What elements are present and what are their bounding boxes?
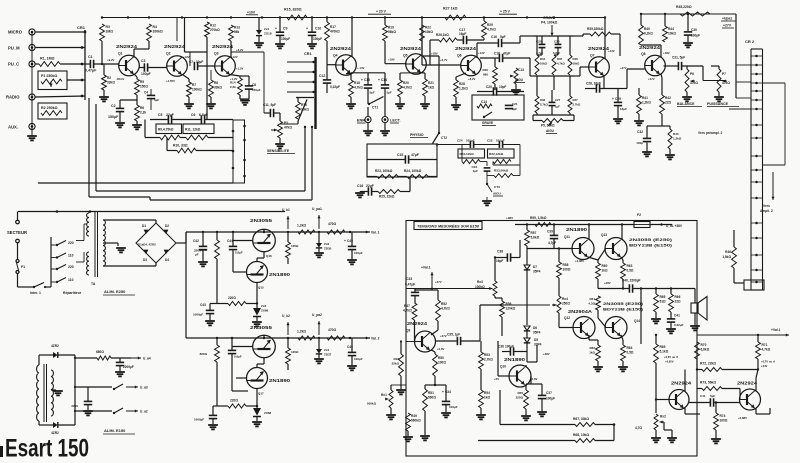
- svg-text:2N3055: 2N3055: [250, 218, 273, 223]
- svg-text:R15, 820Ω: R15, 820Ω: [284, 8, 302, 12]
- svg-text:C12: C12: [319, 74, 325, 78]
- svg-text:Zx2: Zx2: [324, 242, 330, 246]
- svg-text:R60: R60: [602, 264, 608, 268]
- svg-text:2N2924: 2N2924: [212, 44, 234, 49]
- svg-text:56kΩ: 56kΩ: [388, 30, 396, 34]
- svg-text:22µF: 22µF: [166, 113, 174, 117]
- svg-text:16µF: 16µF: [620, 107, 627, 111]
- svg-text:Rx2: Rx2: [660, 415, 666, 419]
- svg-text:470Ω: 470Ω: [328, 328, 337, 332]
- svg-text:2N1890: 2N1890: [566, 227, 588, 232]
- svg-text:47µF: 47µF: [503, 52, 510, 56]
- svg-text:R74: R74: [720, 414, 726, 418]
- svg-text:U_k1: U_k1: [282, 208, 290, 212]
- svg-text:R35: R35: [557, 57, 563, 61]
- svg-text:1,2kΩ: 1,2kΩ: [642, 101, 651, 105]
- svg-text:4,7kΩ: 4,7kΩ: [354, 86, 363, 90]
- svg-text:R64: R64: [627, 346, 633, 350]
- svg-text:Q5: Q5: [403, 54, 408, 58]
- svg-text:5µF: 5µF: [387, 91, 392, 95]
- svg-text:220: 220: [68, 265, 74, 269]
- svg-text:Q17: Q17: [258, 392, 264, 396]
- svg-text:+12V: +12V: [183, 55, 190, 59]
- svg-text:2N3055: 2N3055: [250, 325, 273, 330]
- svg-text:+19V: +19V: [247, 11, 256, 15]
- svg-text:1000µF: 1000µF: [193, 313, 203, 317]
- svg-text:2N2924: 2N2924: [671, 381, 692, 386]
- svg-text:R69: R69: [660, 345, 666, 349]
- svg-text:+Upa1: +Upa1: [722, 17, 732, 21]
- svg-text:C33: C33: [406, 277, 412, 281]
- svg-text:CR1: CR1: [304, 52, 312, 56]
- svg-text:10kΩ: 10kΩ: [573, 62, 581, 66]
- svg-text:4,7kΩ: 4,7kΩ: [557, 62, 565, 66]
- svg-text:R1, 1MΩ: R1, 1MΩ: [40, 57, 55, 61]
- svg-text:R46: R46: [725, 250, 731, 254]
- svg-text:120Ω: 120Ω: [291, 350, 299, 354]
- svg-text:Zx3: Zx3: [261, 304, 267, 308]
- svg-text:SECTEUR: SECTEUR: [7, 230, 27, 235]
- svg-text:220Ω: 220Ω: [516, 396, 524, 400]
- svg-text:150Ω: 150Ω: [140, 85, 148, 89]
- svg-text:CT1: CT1: [372, 106, 378, 110]
- svg-text:C9: C9: [283, 27, 287, 31]
- svg-text:BDY23B (E150): BDY23B (E150): [629, 243, 673, 248]
- svg-text:R2: R2: [107, 76, 111, 80]
- svg-text:C4: C4: [144, 91, 148, 95]
- svg-text:R57: R57: [531, 231, 537, 235]
- svg-text:+27V: +27V: [620, 66, 627, 70]
- svg-text:Zx1: Zx1: [264, 27, 270, 31]
- svg-text:+ 20 V: + 20 V: [376, 10, 387, 14]
- svg-text:22kΩ: 22kΩ: [392, 362, 400, 366]
- svg-text:Esart 150: Esart 150: [5, 435, 89, 463]
- svg-text:C24: C24: [457, 139, 463, 143]
- svg-text:R43: R43: [673, 132, 679, 136]
- svg-text:100Ω: 100Ω: [438, 361, 446, 365]
- svg-text:-30mV: -30mV: [116, 77, 125, 81]
- svg-text:R73, 56kΩ: R73, 56kΩ: [700, 381, 716, 385]
- svg-text:D1: D1: [142, 224, 146, 228]
- svg-text:R10, 33Ω: R10, 33Ω: [173, 144, 188, 148]
- svg-text:4ZR2: 4ZR2: [51, 344, 59, 348]
- svg-text:P6: P6: [690, 72, 694, 76]
- svg-text:Q12: Q12: [564, 316, 570, 320]
- svg-text:ZX68: ZX68: [261, 309, 269, 313]
- svg-text:R52: R52: [441, 302, 447, 306]
- svg-text:35P4: 35P4: [533, 331, 541, 335]
- svg-text:C20: C20: [486, 85, 492, 89]
- svg-text:R4: R4: [153, 25, 157, 29]
- svg-text:2N2924: 2N2924: [407, 321, 428, 326]
- svg-text:220: 220: [68, 241, 74, 245]
- svg-text:+: +: [378, 78, 380, 82]
- svg-text:4,7kΩ: 4,7kΩ: [403, 86, 412, 90]
- svg-text:C1: C1: [88, 55, 93, 59]
- svg-text:0,47µF: 0,47µF: [85, 69, 97, 73]
- svg-text:+0,7V ou rf: +0,7V ou rf: [761, 360, 775, 364]
- svg-text:C21: C21: [512, 102, 518, 106]
- svg-text:PUISSANCE: PUISSANCE: [707, 102, 729, 106]
- svg-text:+38V: +38V: [506, 216, 513, 220]
- svg-text:110: 110: [68, 278, 74, 282]
- svg-text:C31, 5µF: C31, 5µF: [672, 56, 685, 60]
- svg-text:C35, 1µF: C35, 1µF: [447, 333, 460, 337]
- svg-text:470kΩ: 470kΩ: [330, 30, 340, 34]
- svg-text:110: 110: [68, 254, 74, 258]
- svg-text:R65: R65: [660, 295, 666, 299]
- svg-text:22Ω: 22Ω: [675, 300, 682, 304]
- svg-text:1,2kΩ: 1,2kΩ: [673, 137, 682, 141]
- svg-text:D5: D5: [534, 338, 538, 342]
- svg-text:AIGU: AIGU: [493, 192, 502, 196]
- svg-text:R19: R19: [388, 26, 394, 30]
- svg-text:100kΩ: 100kΩ: [153, 30, 164, 34]
- svg-text:100µF: 100µF: [354, 357, 363, 361]
- svg-text:2N2924: 2N2924: [400, 46, 422, 51]
- svg-text:C39: C39: [547, 230, 553, 234]
- svg-text:D1àD4, 4ZR2: D1àD4, 4ZR2: [138, 243, 156, 247]
- svg-text:R22: R22: [425, 26, 431, 30]
- svg-text:C41: C41: [674, 314, 680, 318]
- svg-text:Vers: Vers: [763, 204, 770, 208]
- svg-text:4,3Ω: 4,3Ω: [588, 302, 595, 306]
- svg-text:0,5Ω: 0,5Ω: [627, 269, 634, 273]
- svg-text:R53: R53: [484, 353, 490, 357]
- svg-text:ZD37: ZD37: [324, 353, 332, 357]
- svg-text:2N2924: 2N2924: [164, 44, 186, 49]
- svg-text:R62: R62: [589, 346, 595, 350]
- svg-text:R3: R3: [106, 25, 110, 29]
- svg-text:C36: C36: [498, 345, 504, 349]
- svg-text:+0,6V ou rf: +0,6V ou rf: [664, 355, 678, 359]
- svg-text:R9,4.75kΩ: R9,4.75kΩ: [158, 128, 174, 132]
- svg-text:R17: R17: [330, 25, 336, 29]
- svg-text:100µF: 100µF: [313, 37, 322, 41]
- svg-text:R25, 22kΩ: R25, 22kΩ: [379, 195, 395, 199]
- svg-text:CR1: CR1: [77, 25, 86, 30]
- svg-text:P7: P7: [722, 72, 726, 76]
- svg-text:Q3: Q3: [214, 52, 219, 56]
- svg-text:Q11: Q11: [564, 235, 570, 239]
- svg-text:Répartiteur: Répartiteur: [63, 291, 82, 295]
- svg-text:270kΩ: 270kΩ: [210, 28, 220, 32]
- svg-text:R50: R50: [438, 356, 444, 360]
- svg-text:0,22µF: 0,22µF: [330, 85, 340, 89]
- svg-text:U_pa1: U_pa1: [312, 207, 322, 211]
- svg-text:250Ω: 250Ω: [562, 302, 570, 306]
- svg-text:R55: R55: [517, 391, 523, 395]
- svg-text:CT3: CT3: [494, 185, 500, 189]
- svg-text:D2: D2: [165, 224, 169, 228]
- svg-text:D6: D6: [533, 326, 537, 330]
- svg-text:R54: R54: [484, 391, 490, 395]
- svg-text:R27 1kΩ: R27 1kΩ: [443, 7, 458, 11]
- svg-text:100µF: 100µF: [354, 251, 363, 255]
- svg-text:2N2924: 2N2924: [588, 46, 610, 51]
- svg-text:2N2924: 2N2924: [455, 46, 477, 51]
- svg-text:C37: C37: [546, 391, 552, 395]
- svg-text:U_a3: U_a3: [140, 386, 148, 390]
- svg-text:R39,330kΩ: R39,330kΩ: [587, 27, 604, 31]
- svg-text:R61: R61: [589, 297, 595, 301]
- svg-text:22Ω: 22Ω: [665, 101, 672, 105]
- svg-text:+ 25 V: + 25 V: [500, 10, 511, 14]
- svg-text:4,7Ω: 4,7Ω: [635, 426, 642, 430]
- svg-text:47kΩ: 47kΩ: [690, 81, 698, 85]
- svg-text:C28, 16µF: C28, 16µF: [586, 82, 601, 86]
- svg-text:R13: R13: [234, 26, 240, 30]
- svg-text:R8: R8: [214, 81, 218, 85]
- svg-text:R11, 12kΩ: R11, 12kΩ: [185, 128, 201, 132]
- svg-text:AUX.: AUX.: [8, 125, 18, 130]
- svg-text:C11, 5µF: C11, 5µF: [263, 103, 276, 107]
- svg-text:5,6µF: 5,6µF: [234, 355, 242, 359]
- svg-text:R36: R36: [540, 98, 546, 102]
- svg-text:2200: 2200: [71, 404, 78, 408]
- svg-text:D3: D3: [143, 258, 147, 262]
- svg-text:Q15: Q15: [258, 286, 264, 290]
- svg-text:U_a4: U_a4: [143, 357, 151, 361]
- svg-text:2N3055 (E250): 2N3055 (E250): [603, 302, 644, 306]
- svg-text:R26,1kΩ: R26,1kΩ: [436, 33, 449, 37]
- svg-text:2,7kΩ: 2,7kΩ: [484, 358, 493, 362]
- svg-text:5µF: 5µF: [370, 91, 375, 95]
- svg-text:680: 680: [483, 73, 488, 77]
- svg-text:R33,56kΩ: R33,56kΩ: [494, 169, 509, 173]
- svg-text:TENSIONS MESURÉES SUR E150: TENSIONS MESURÉES SUR E150: [417, 224, 479, 229]
- svg-text:2,2k: 2,2k: [230, 85, 236, 89]
- svg-text:µF: µF: [195, 253, 199, 257]
- svg-text:C41: C41: [700, 394, 706, 398]
- svg-text:+: +: [306, 27, 308, 31]
- svg-text:SENSIBILITE: SENSIBILITE: [267, 149, 290, 153]
- svg-text:+12V: +12V: [231, 55, 238, 59]
- svg-text:150µF: 150µF: [108, 115, 119, 119]
- svg-text:R38: R38: [573, 57, 579, 61]
- svg-text:+: +: [275, 27, 277, 31]
- svg-text:+27V: +27V: [440, 334, 447, 338]
- svg-text:2N1890: 2N1890: [269, 272, 291, 277]
- svg-text:+24V: +24V: [761, 364, 768, 368]
- svg-text:+ 14V: + 14V: [357, 66, 365, 70]
- svg-text:C10: C10: [315, 27, 321, 31]
- svg-text:R47: R47: [404, 304, 410, 308]
- svg-text:Q16: Q16: [266, 254, 272, 258]
- svg-text:R40: R40: [644, 27, 650, 31]
- svg-text:100µF: 100µF: [546, 397, 555, 401]
- svg-text:R67, 33kΩ: R67, 33kΩ: [573, 417, 589, 421]
- svg-text:5µF: 5µF: [710, 394, 715, 398]
- svg-text:Q10: Q10: [500, 365, 506, 369]
- svg-text:Rx3: Rx3: [477, 280, 483, 284]
- svg-text:R41: R41: [642, 96, 648, 100]
- svg-text:C15: C15: [397, 153, 403, 157]
- svg-text:6,2kΩ: 6,2kΩ: [644, 32, 653, 36]
- svg-text:R21: R21: [428, 81, 434, 85]
- svg-text:+18V: +18V: [663, 51, 670, 55]
- svg-text:+0,65V: +0,65V: [665, 360, 674, 364]
- svg-text:2N2904A: 2N2904A: [568, 309, 592, 314]
- svg-text:16µF: 16µF: [459, 32, 466, 36]
- svg-text:+: +: [361, 78, 363, 82]
- svg-text:1,5kΩ: 1,5kΩ: [722, 255, 731, 259]
- svg-text:R66: R66: [675, 295, 681, 299]
- svg-text:P5, 50kΩ: P5, 50kΩ: [541, 124, 555, 128]
- svg-text:Q14: Q14: [634, 319, 640, 323]
- svg-text:ALIM. E250: ALIM. E250: [104, 289, 126, 294]
- svg-text:CR 2: CR 2: [745, 39, 755, 44]
- svg-text:+18V: +18V: [431, 52, 438, 56]
- svg-text:100µ: 100µ: [636, 141, 643, 145]
- svg-text:+3,2V: +3,2V: [236, 48, 244, 52]
- svg-text:C15: C15: [364, 78, 370, 82]
- svg-text:510µF: 510µF: [496, 139, 505, 143]
- svg-text:Q1: Q1: [118, 52, 123, 56]
- svg-text:+28V: +28V: [543, 352, 550, 356]
- svg-text:MICRO: MICRO: [8, 30, 23, 35]
- svg-text:BDY23B (E150): BDY23B (E150): [603, 308, 644, 312]
- svg-text:Q6: Q6: [457, 54, 462, 58]
- svg-text:5µF: 5µF: [154, 98, 159, 102]
- svg-text:820Ω: 820Ω: [200, 248, 208, 252]
- svg-text:R48: R48: [393, 357, 399, 361]
- svg-text:R72, 22kΩ: R72, 22kΩ: [700, 362, 716, 366]
- svg-text:C42: C42: [193, 239, 199, 243]
- svg-text:Q2: Q2: [166, 52, 171, 56]
- svg-text:1kΩ: 1kΩ: [428, 86, 435, 90]
- svg-text:10µF: 10µF: [499, 85, 506, 89]
- svg-text:5,6kΩ: 5,6kΩ: [531, 236, 540, 240]
- svg-text:C5: C5: [158, 113, 162, 117]
- svg-text:R30: R30: [482, 68, 488, 72]
- svg-text:Rx4: Rx4: [562, 297, 568, 301]
- svg-text:1,2kΩ: 1,2kΩ: [297, 330, 306, 334]
- svg-text:AIGU: AIGU: [515, 78, 524, 82]
- svg-text:+27V: +27V: [723, 24, 732, 28]
- svg-text:2N1890: 2N1890: [269, 378, 291, 383]
- svg-text:2200µF: 2200µF: [123, 365, 134, 369]
- svg-text:ZG18: ZG18: [264, 32, 272, 36]
- svg-text:U_k2: U_k2: [282, 314, 290, 318]
- svg-text:1kΩ: 1kΩ: [602, 269, 609, 273]
- svg-text:10kΩ: 10kΩ: [540, 62, 548, 66]
- svg-text:100Ω: 100Ω: [720, 419, 728, 423]
- svg-text:C6: C6: [191, 113, 195, 117]
- svg-text:ALIM. E150: ALIM. E150: [104, 428, 126, 433]
- svg-text:R18: R18: [354, 81, 360, 85]
- svg-text:560Ω: 560Ω: [428, 396, 436, 400]
- svg-text:47µF: 47µF: [411, 153, 419, 157]
- svg-text:4,7kΩ: 4,7kΩ: [487, 28, 496, 32]
- svg-text:Rx1: Rx1: [381, 393, 387, 397]
- svg-text:R12: R12: [210, 24, 216, 28]
- svg-text:+Val.1: +Val.1: [771, 328, 781, 332]
- svg-text:AIGU: AIGU: [546, 129, 555, 133]
- svg-text:+3,7V: +3,7V: [440, 58, 448, 62]
- svg-text:560kΩ: 560kΩ: [411, 419, 421, 423]
- svg-text:0,47µF: 0,47µF: [405, 283, 415, 287]
- svg-text:P1 250kΩ: P1 250kΩ: [41, 74, 57, 78]
- svg-text:C16: C16: [491, 35, 497, 39]
- svg-text:35P4: 35P4: [533, 270, 541, 274]
- svg-text:C27: C27: [555, 98, 561, 102]
- svg-text:C30: C30: [691, 28, 697, 32]
- svg-text:R59, 1,5kΩ: R59, 1,5kΩ: [530, 216, 547, 220]
- svg-text:1kΩ: 1kΩ: [589, 351, 595, 355]
- svg-text:ZX68: ZX68: [264, 411, 272, 415]
- svg-text:22µF: 22µF: [366, 184, 374, 188]
- svg-text:U_pa2: U_pa2: [312, 313, 322, 317]
- svg-text:33kΩ: 33kΩ: [107, 81, 115, 85]
- svg-text:2N2924: 2N2924: [330, 46, 352, 51]
- svg-text:R24, 100kΩ: R24, 100kΩ: [404, 169, 422, 173]
- svg-text:5,1kΩ: 5,1kΩ: [660, 350, 669, 354]
- svg-text:Q13: Q13: [601, 233, 607, 237]
- svg-text:+19V: +19V: [388, 58, 395, 62]
- svg-text:16µF: 16µF: [496, 259, 503, 263]
- svg-text:120kΩ: 120kΩ: [506, 307, 516, 311]
- svg-text:R34: R34: [540, 57, 546, 61]
- svg-text:U_a1 +38V: U_a1 +38V: [666, 224, 683, 228]
- svg-text:R5: R5: [140, 80, 144, 84]
- svg-text:4,7kΩ: 4,7kΩ: [403, 309, 412, 313]
- svg-text:6,8kΩ: 6,8kΩ: [701, 348, 710, 352]
- svg-text:Q9: Q9: [406, 329, 410, 333]
- svg-text:Val. 1: Val. 1: [371, 231, 380, 235]
- svg-text:+: +: [344, 239, 346, 243]
- svg-text:2N1890: 2N1890: [504, 357, 526, 362]
- svg-text:GRAVE: GRAVE: [482, 121, 493, 125]
- svg-text:150µF: 150µF: [252, 88, 261, 92]
- svg-text:2N2924: 2N2924: [639, 45, 661, 50]
- svg-text:4,7kΩ: 4,7kΩ: [762, 348, 771, 352]
- svg-text:1µF: 1µF: [473, 169, 478, 173]
- svg-text:Q8: Q8: [641, 52, 646, 56]
- svg-text:1µF: 1µF: [555, 105, 560, 109]
- svg-text:100µF: 100µF: [505, 345, 514, 349]
- svg-text:R29: R29: [487, 23, 493, 27]
- svg-text:33kΩ: 33kΩ: [214, 86, 222, 90]
- svg-text:C14: C14: [481, 100, 487, 104]
- svg-text:33P4: 33P4: [534, 343, 542, 347]
- svg-text:C40, 2200µF: C40, 2200µF: [622, 279, 641, 283]
- svg-text:56k: 56k: [234, 30, 240, 34]
- svg-text:Ampli. 2: Ampli. 2: [760, 209, 773, 213]
- svg-text:Q4: Q4: [333, 54, 338, 58]
- svg-text:C38: C38: [497, 250, 503, 254]
- svg-text:R71: R71: [762, 343, 768, 347]
- svg-text:Vers préampl. 2: Vers préampl. 2: [698, 131, 723, 135]
- svg-text:1000µF: 1000µF: [194, 418, 204, 422]
- svg-text:C43: C43: [200, 303, 206, 307]
- svg-text:820Ω: 820Ω: [200, 352, 208, 356]
- svg-text:500kΩ: 500kΩ: [367, 402, 377, 406]
- svg-text:R70: R70: [701, 343, 707, 347]
- svg-text:R63: R63: [627, 264, 633, 268]
- svg-text:C13: C13: [518, 68, 524, 72]
- svg-text:R32,12kΩ: R32,12kΩ: [489, 152, 504, 156]
- svg-text:+13V: +13V: [478, 51, 485, 55]
- svg-text:R45,220Ω: R45,220Ω: [676, 5, 692, 9]
- svg-text:R20: R20: [403, 81, 409, 85]
- svg-text:470Ω: 470Ω: [328, 222, 337, 226]
- svg-text:PHYSIO: PHYSIO: [410, 133, 424, 137]
- svg-text:2N2924: 2N2924: [116, 44, 138, 49]
- svg-text:120Ω: 120Ω: [291, 244, 299, 248]
- svg-text:Val. 2: Val. 2: [371, 337, 380, 341]
- svg-text:CT2: CT2: [441, 136, 447, 140]
